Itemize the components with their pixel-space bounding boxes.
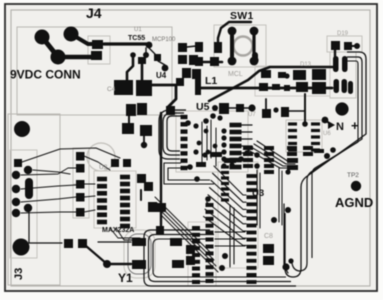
capacitor C10 pads [262, 109, 271, 118]
wire J4 pad2 to C1 [71, 34, 98, 44]
wire SW1 left bar [230, 29, 234, 62]
wire right loop middle [292, 57, 362, 271]
wire U5 inner 4 [215, 128, 217, 166]
diode row2 pads [259, 83, 268, 91]
wire U5 wrap 5 [168, 168, 210, 180]
via U3 top 1 [238, 156, 244, 162]
wire rpack to U2 2 [84, 183, 95, 185]
diode D13 courtyard [255, 66, 330, 96]
pads below U5 [210, 152, 222, 157]
switch SW1 feed pad [214, 42, 222, 53]
capacitor C18 pads [333, 56, 339, 72]
label IN [328, 121, 335, 129]
capacitor C19 pads [334, 79, 340, 93]
wire bus bend A [144, 230, 296, 286]
via U5 top 3 [203, 118, 209, 124]
wire SW1 bottom [196, 61, 222, 64]
diode D19 courtyard [327, 36, 362, 52]
resistor R7 pads [64, 239, 73, 248]
switch SW1 pad A [228, 27, 237, 36]
via row x215 [212, 105, 218, 111]
svg-text:+: + [351, 118, 359, 133]
wire J3 fan 5 [21, 212, 76, 213]
capacitor C9 pads [219, 103, 229, 114]
wire rpack to U2 4 [84, 210, 95, 212]
test point pad TP2 [351, 181, 361, 191]
via below U5 2 [229, 162, 234, 167]
via U5 mid 3 [206, 150, 211, 155]
IC U6 right pads [311, 122, 320, 125]
wire bus bend B [149, 235, 292, 282]
wire C6 down [143, 136, 145, 143]
wire U4 2 [149, 48, 155, 54]
IC U8 courtyard [188, 222, 216, 286]
wire J4 pad1 to pad3 [42, 37, 58, 57]
wire SW1 top bend [218, 22, 251, 44]
IC U5 left pads [181, 115, 188, 119]
svg-text:U5: U5 [196, 101, 210, 113]
wire D19 down [334, 50, 336, 67]
IC U3 right pads [247, 174, 257, 178]
svg-text:9VDC CONN: 9VDC CONN [10, 68, 81, 82]
wire Y1 pad [107, 263, 131, 265]
svg-text:L1: L1 [205, 75, 217, 87]
capacitor C7 pads [137, 174, 146, 183]
junction pad bus [156, 226, 164, 234]
svg-text:J3: J3 [13, 268, 25, 280]
via U5 mid 2 [197, 141, 202, 146]
wire C5 [128, 116, 130, 124]
via TC55 pin [146, 42, 153, 49]
pads right of U3 top [243, 146, 253, 150]
capacitor C4 pads [114, 80, 133, 95]
via row x252 [248, 104, 255, 111]
wire J3 fan 3 [21, 185, 76, 189]
wire U4 1 [158, 61, 165, 68]
via U8 1 [222, 253, 228, 259]
via below U5 3 [193, 149, 198, 154]
test point pad IN [335, 102, 348, 115]
via IN [322, 117, 329, 124]
svg-text:U1: U1 [134, 27, 142, 33]
svg-text:Y1: Y1 [118, 271, 133, 285]
capacitor C5 pads [126, 104, 136, 116]
wire C4 up 2 [127, 58, 133, 81]
pad left of L1 [176, 78, 184, 86]
crystal Y1 pads [132, 238, 146, 246]
connector J3 courtyard [8, 114, 60, 285]
wire C4 up [141, 64, 144, 80]
via C6 [141, 142, 147, 148]
via right of U3 1 [254, 152, 260, 158]
via U5 top 1 [185, 120, 191, 126]
IC U5 courtyard [176, 111, 248, 172]
IC U2 right pads [120, 175, 130, 180]
switch SW1 pad B [250, 27, 259, 36]
capacitor C20 pad [348, 81, 353, 94]
via right loop end [285, 207, 291, 213]
svg-text:C8: C8 [264, 233, 273, 240]
capacitor C12 pads [186, 245, 195, 254]
wire R to SW [187, 46, 196, 47]
capacitor C6 pads [122, 123, 134, 134]
via U5 top 5 [217, 115, 222, 120]
via below U5 1 [202, 152, 207, 157]
IC U6 left pads [288, 122, 297, 125]
diode D2 pads [182, 68, 191, 78]
capacitor C3 outline [87, 143, 115, 171]
wire crystal pad left [98, 241, 131, 243]
wire U3 inner vertical 2 [233, 208, 235, 264]
switch SW1 pad C [228, 57, 237, 66]
IC U5 via column [221, 128, 226, 133]
wire right loop inner [312, 61, 358, 258]
wire U3 fan [214, 166, 246, 195]
svg-text:U7: U7 [248, 112, 256, 118]
IC U3 courtyard [218, 162, 258, 268]
svg-text:N: N [336, 121, 344, 133]
IC U2 left pads [97, 177, 107, 182]
svg-text:MCP100: MCP100 [152, 37, 176, 43]
resistor R1 pads [178, 43, 187, 52]
wire R7 to Y1 via [86, 246, 107, 264]
svg-text:U6: U6 [323, 131, 331, 137]
wire upper rail [209, 67, 333, 101]
connector J4 pad 1 [35, 30, 50, 45]
via U3 top 2 [244, 150, 250, 156]
via D19 [354, 43, 360, 49]
via Y1 [103, 260, 111, 268]
wire bundle U5 to right [248, 150, 295, 168]
svg-text:J4: J4 [86, 5, 102, 21]
via right of U3 2 [254, 163, 260, 169]
connector J4 pad 2 [64, 27, 79, 42]
via mid 1 [187, 164, 193, 170]
via right mid 2 [271, 217, 277, 223]
wire C4 right [151, 85, 176, 112]
connector J4 pad 3 [51, 50, 66, 65]
switch SW1 button [234, 37, 253, 56]
wire U5 pins right [241, 124, 252, 126]
wire right loop outer [285, 52, 366, 277]
wire U5 inner 2 [206, 126, 208, 160]
diode D19 pads [331, 41, 340, 50]
switch SW1 pad D [250, 57, 259, 66]
wire U8 row [215, 231, 245, 233]
wire U6 up [304, 94, 306, 123]
via U1 pin 2 [130, 52, 136, 58]
via U5 mid 1 [204, 129, 209, 134]
wire U2 bottom fan [110, 228, 140, 238]
IC U2 top pads [111, 159, 119, 167]
resistor R5 courtyard [73, 148, 89, 184]
via right mid 1 [285, 169, 290, 174]
IC U5 right pads [230, 123, 242, 128]
wire C10 right [289, 110, 305, 112]
wire J3 bottom [29, 211, 62, 243]
wire U1 [145, 48, 147, 55]
wire rpack to U2 1 [84, 156, 110, 170]
svg-text:D13: D13 [300, 62, 312, 68]
wire C10 up [265, 99, 267, 109]
crystal Y1 outline [128, 234, 151, 274]
connector J3 pads [12, 171, 20, 179]
svg-text:TP2: TP2 [347, 172, 359, 179]
wire SW1 right bar [252, 29, 255, 62]
wire J3 to U2 [22, 148, 120, 162]
wire U5 wrap 3 [159, 110, 186, 159]
wire U5 wrap 4 [164, 163, 214, 184]
wire J3 fan 1 [21, 168, 76, 175]
via U4 pin [162, 65, 169, 72]
capacitor C1 courtyard [88, 36, 110, 64]
capacitor C11 pads [170, 238, 182, 246]
pad row below U6 [287, 146, 297, 150]
capacitor C18 C19 courtyard [330, 52, 356, 98]
resistor pack pads [76, 152, 85, 161]
svg-text:U4: U4 [156, 71, 167, 80]
switch SW1 courtyard [214, 25, 266, 67]
wire vertical bus [160, 113, 162, 226]
wire J3 fan 4 [21, 197, 76, 202]
via U6 [302, 121, 308, 127]
svg-text:C4: C4 [107, 86, 116, 93]
wire left return [284, 204, 288, 273]
via U5 mid 4 [213, 144, 218, 149]
resistor R2 pads [189, 55, 198, 65]
capacitor C8 pads [263, 244, 274, 253]
svg-text:AGND: AGND [335, 195, 373, 210]
wire U5 inner 1 [201, 122, 203, 165]
wire C1 to via [104, 42, 147, 45]
wire U5 inner 3 [210, 120, 212, 158]
capacitor C1 pads [92, 40, 103, 49]
wire U3 right vertical 2 [259, 173, 261, 228]
via U1 pin 3 [143, 52, 149, 58]
diode D13 pads row1 [261, 70, 271, 78]
wire U5 wrap 2 [163, 113, 184, 155]
IC U8 left pads [192, 226, 200, 230]
wire L1 rail [201, 87, 332, 90]
pads U6 bottom right [287, 158, 298, 163]
wire row [229, 107, 250, 109]
pad U5 pin1 [166, 106, 175, 115]
wire U3 right vertical 3 [278, 168, 280, 222]
via U5 top 2 [193, 123, 198, 128]
wire rpack to U2 3 [84, 196, 95, 197]
wire U3 inner vertical 1 [229, 205, 231, 267]
wire bus bend C [153, 239, 286, 277]
IC U6 courtyard [286, 120, 322, 152]
wire J3 fan 2 [33, 170, 70, 174]
svg-text:U2: U2 [99, 164, 108, 171]
pad row below SW1 [195, 57, 203, 66]
via mid 3 [205, 196, 211, 202]
svg-text:D19: D19 [337, 31, 349, 37]
wire U2 mid [140, 190, 142, 200]
svg-text:SW1: SW1 [230, 10, 254, 22]
via U8 2 [219, 265, 225, 271]
svg-text:MCL: MCL [228, 71, 243, 78]
IC U4 pads [138, 57, 146, 64]
wire U3 right vertical 4 [281, 171, 283, 225]
via mid 2 [194, 176, 200, 182]
wire U2 to U8 bundle [155, 197, 212, 254]
wire IN [325, 120, 331, 125]
svg-text:TC55: TC55 [128, 35, 145, 42]
wire J4 pad3 to C1 [58, 55, 92, 60]
via below U6 [324, 153, 330, 159]
pads U6 bottom col [264, 146, 274, 150]
test point pad TP1 [14, 121, 30, 137]
IC U3 upper left pads [221, 165, 229, 168]
connector J4 courtyard [17, 27, 172, 115]
IC U8 mid pads [206, 203, 214, 207]
connector J3 pin pads [24, 166, 32, 174]
via U5 top 4 [210, 113, 216, 119]
diode D5 pads [148, 202, 157, 212]
inductor L1 pad [195, 77, 201, 95]
via row1 [284, 73, 289, 78]
wire U5 wrap 1 [167, 116, 184, 151]
test point pad bottom [13, 239, 30, 256]
wire U3 right vertical 1 [256, 170, 258, 225]
via row x276 [273, 107, 278, 112]
via upper rail [251, 56, 258, 63]
IC U2 courtyard [94, 171, 136, 228]
